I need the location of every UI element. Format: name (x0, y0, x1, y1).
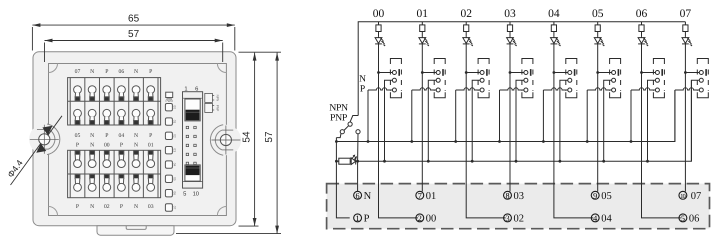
svg-text:06: 06 (636, 8, 648, 20)
svg-text:01: 01 (426, 191, 437, 202)
svg-text:03: 03 (173, 148, 177, 152)
svg-text:N: N (134, 142, 138, 148)
svg-text:N: N (134, 204, 138, 210)
svg-text:PNP: PNP (216, 105, 220, 112)
svg-text:06: 06 (173, 191, 177, 195)
svg-text:P: P (360, 85, 365, 95)
svg-text:01: 01 (173, 120, 177, 124)
svg-text:P: P (76, 142, 79, 148)
svg-text:5: 5 (681, 214, 685, 223)
svg-text:1: 1 (356, 214, 360, 223)
svg-text:N: N (90, 69, 94, 75)
svg-text:5: 5 (183, 191, 186, 197)
svg-text:04: 04 (548, 8, 560, 20)
svg-text:3: 3 (505, 214, 509, 223)
svg-text:02: 02 (514, 214, 525, 225)
svg-text:N: N (364, 191, 372, 202)
svg-text:06: 06 (119, 69, 125, 75)
svg-text:P: P (76, 204, 79, 210)
svg-text:6: 6 (195, 85, 198, 92)
svg-text:1: 1 (184, 86, 187, 92)
svg-text:04: 04 (119, 133, 125, 139)
svg-text:57: 57 (128, 29, 140, 40)
svg-text:05: 05 (592, 8, 604, 20)
svg-text:05: 05 (601, 191, 612, 202)
svg-text:P: P (149, 69, 152, 75)
svg-text:03: 03 (504, 8, 516, 20)
svg-text:00: 00 (173, 105, 177, 109)
svg-text:N: N (90, 142, 94, 148)
svg-text:07: 07 (680, 8, 692, 20)
svg-text:65: 65 (128, 14, 140, 25)
svg-text:PWR: PWR (165, 99, 173, 103)
svg-text:07: 07 (75, 69, 81, 75)
svg-text:6: 6 (356, 191, 360, 200)
svg-text:10: 10 (193, 190, 199, 197)
svg-text:PNP: PNP (330, 113, 348, 124)
svg-text:02: 02 (460, 8, 472, 20)
svg-text:N: N (90, 204, 94, 210)
svg-text:00: 00 (373, 8, 385, 20)
svg-text:01: 01 (148, 142, 154, 148)
svg-text:02: 02 (173, 134, 177, 138)
svg-text:9: 9 (593, 191, 597, 200)
svg-text:05: 05 (173, 177, 177, 181)
svg-text:06: 06 (689, 214, 700, 225)
svg-text:02: 02 (104, 204, 110, 210)
svg-text:P: P (105, 69, 108, 75)
svg-text:54: 54 (242, 131, 253, 143)
svg-text:N: N (359, 74, 366, 84)
svg-text:NPN: NPN (216, 95, 220, 102)
svg-text:P: P (149, 133, 152, 139)
svg-text:07: 07 (173, 206, 177, 210)
svg-text:57: 57 (264, 131, 275, 143)
svg-text:7: 7 (418, 191, 422, 200)
svg-text:00: 00 (426, 214, 437, 225)
svg-text:04: 04 (173, 163, 177, 167)
svg-text:N: N (134, 69, 138, 75)
svg-text:N: N (90, 133, 94, 139)
svg-text:N: N (134, 133, 138, 139)
svg-text:8: 8 (505, 191, 509, 200)
svg-text:4: 4 (593, 214, 597, 223)
svg-text:03: 03 (514, 191, 525, 202)
svg-text:10: 10 (680, 193, 685, 200)
svg-text:07: 07 (691, 191, 702, 202)
svg-text:2: 2 (418, 214, 422, 223)
svg-text:05: 05 (75, 133, 81, 139)
svg-text:00: 00 (104, 142, 110, 148)
svg-text:P: P (120, 142, 123, 148)
svg-text:P: P (120, 204, 123, 210)
svg-text:01: 01 (417, 8, 429, 20)
svg-text:P: P (105, 133, 108, 139)
svg-text:04: 04 (601, 214, 612, 225)
svg-text:03: 03 (148, 204, 154, 210)
svg-text:P: P (364, 214, 370, 225)
